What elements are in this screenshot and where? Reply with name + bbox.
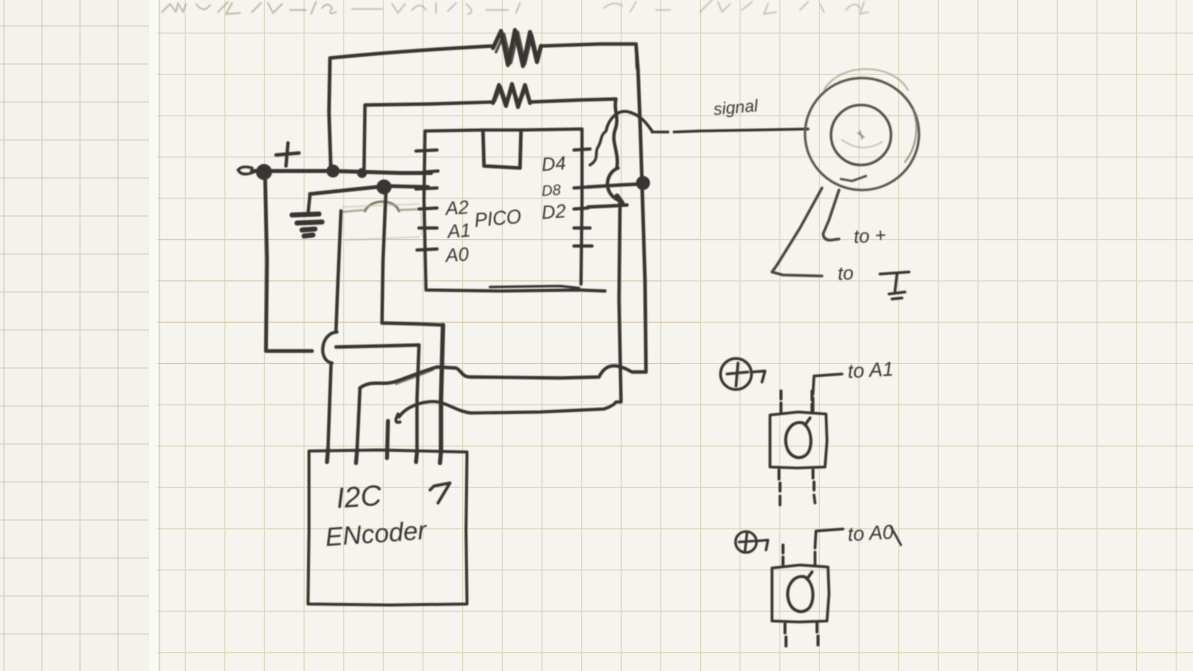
wire vB horizontal bbox=[382, 323, 443, 325]
wire from plus node 1 bbox=[752, 371, 765, 382]
pico pin A2 bbox=[419, 208, 437, 209]
wire R1 corner overshoot bbox=[636, 44, 637, 68]
wire vB drop bbox=[441, 325, 443, 451]
pico pin right1 bbox=[574, 149, 590, 150]
pot module P1 box bbox=[770, 412, 827, 468]
wire vA hop arc bbox=[323, 332, 337, 363]
svg-text:to: to bbox=[837, 263, 854, 285]
wire D8 to junction bbox=[588, 184, 641, 187]
svg-text:to A0: to A0 bbox=[847, 522, 894, 546]
wire pin into encoder p2 bbox=[356, 451, 357, 463]
faint handwriting top-mid bbox=[352, 3, 520, 14]
svg-text:D8: D8 bbox=[541, 182, 562, 200]
speaker double-draw arc bbox=[905, 110, 916, 162]
faint speaker inner shade bbox=[842, 140, 882, 148]
svg-text:D4: D4 bbox=[541, 153, 567, 176]
svg-text:to +: to + bbox=[853, 225, 886, 248]
wire R2 right leg bbox=[530, 99, 617, 167]
pico pin A1 bbox=[419, 226, 437, 229]
svg-text:A1: A1 bbox=[446, 220, 472, 243]
wire pot1 pin left dashes bbox=[780, 391, 783, 412]
wire D8 net vertical bbox=[642, 183, 646, 371]
wire from plus node 2 bbox=[757, 540, 768, 550]
pot P1 zero glyph bbox=[786, 418, 811, 458]
wire pin into encoder p5 bbox=[440, 451, 441, 463]
I2C encoder box bbox=[308, 450, 467, 605]
wire pin into encoder p4 bbox=[416, 452, 417, 462]
pico pin right5 bbox=[574, 244, 592, 247]
svg-text:A2: A2 bbox=[444, 197, 470, 220]
resistor R1 bbox=[493, 30, 541, 66]
speaker center mark bbox=[858, 131, 864, 139]
wire signal line bbox=[652, 129, 808, 132]
wire pot1 pin right bbox=[811, 391, 814, 412]
node junction dot B bbox=[329, 167, 338, 176]
ground symbol bbox=[292, 214, 322, 236]
pico pin D4 bbox=[574, 187, 588, 188]
faint speaker sketch arc bbox=[824, 69, 908, 90]
wire pin into encoder p1 bbox=[327, 449, 328, 462]
plus-circle node 2 bbox=[736, 532, 757, 553]
wire signal arch bbox=[606, 111, 652, 131]
faint handwriting top-right bbox=[604, 0, 868, 14]
wire H2 wavy bbox=[360, 366, 646, 388]
pot module P2 box bbox=[772, 565, 829, 622]
wire rail to A2 bbox=[310, 186, 428, 194]
speaker outer circle bbox=[805, 78, 919, 190]
wire to A1 bbox=[813, 374, 842, 412]
node junction dot D bbox=[379, 182, 390, 193]
svg-text:to A1: to A1 bbox=[847, 359, 894, 383]
wire H2 doubled bbox=[396, 370, 433, 384]
wire H3 curl end bbox=[396, 414, 400, 422]
pico pin A3 bbox=[416, 150, 437, 151]
svg-text:I2C: I2C bbox=[335, 480, 383, 515]
wire vA lower bbox=[328, 365, 331, 449]
svg-text:A0: A0 bbox=[444, 244, 470, 267]
wire R2 left leg bbox=[364, 102, 493, 172]
pico pin left2 bbox=[416, 188, 437, 189]
wire pot1 bottom stubs bbox=[779, 470, 814, 491]
node junction dot E bbox=[638, 178, 648, 188]
wire pot2 pin left dashes bbox=[782, 545, 785, 565]
plus-circle node 1 bbox=[720, 358, 751, 389]
svg-text:PICO: PICO bbox=[474, 206, 523, 232]
pico chip bottom doubled bbox=[490, 286, 579, 288]
pico pin D8 bbox=[574, 208, 588, 209]
svg-text:signal: signal bbox=[713, 96, 760, 119]
wire vB vertical bbox=[382, 191, 386, 323]
wire pot2 bottom stubs bbox=[785, 623, 818, 646]
wire hop arrow blob bbox=[617, 196, 622, 203]
faint erased box bbox=[343, 204, 422, 240]
wire + power rail bbox=[252, 171, 431, 173]
label A0 strike bbox=[891, 527, 901, 545]
+ symbol bbox=[276, 143, 299, 166]
wire to A0 bbox=[815, 529, 843, 565]
encoder pin arrow symbol bbox=[430, 483, 450, 503]
svg-text:D2: D2 bbox=[541, 201, 567, 224]
node junction dot C bbox=[359, 170, 366, 177]
resistor R1 doubled bbox=[496, 32, 538, 64]
wire + rail left drop bbox=[265, 172, 312, 351]
pot P2 zero glyph bbox=[788, 572, 813, 612]
wire R1 left leg bbox=[329, 46, 493, 174]
wire ground stub bbox=[308, 195, 310, 214]
wire horizontal to encoder corner bbox=[336, 345, 419, 452]
wire D2 net vertical bbox=[619, 203, 621, 401]
wire H3 wavy bbox=[399, 402, 621, 417]
speaker inner circle bbox=[831, 105, 891, 165]
wire + rail hook end bbox=[238, 167, 254, 174]
wire H3 drop to encoder bbox=[387, 421, 388, 458]
ground symbol 2 bbox=[880, 272, 909, 299]
wire S-curve from pin bbox=[590, 132, 605, 165]
wire H2 drop to encoder bbox=[357, 388, 360, 451]
speaker wire leg 2 bbox=[823, 190, 839, 240]
wire D2 to hop bbox=[588, 205, 627, 207]
node junction dot A bbox=[258, 166, 270, 178]
pico chip U1 outline bbox=[424, 129, 605, 291]
wire vA upper bbox=[336, 211, 341, 330]
wire hop from R2 to D2 net bbox=[607, 168, 621, 203]
resistor R2 doubled bbox=[495, 86, 526, 105]
resistor R2 bbox=[493, 84, 530, 107]
wire pot1 lower dashes bbox=[780, 495, 815, 505]
pico pin D2 bbox=[574, 226, 590, 229]
faint handwriting top-left bbox=[162, 2, 336, 14]
faint dome over vB (erased wire hop) bbox=[365, 202, 399, 211]
pico pin A0 bbox=[417, 249, 437, 250]
faint erased wire A2 bbox=[341, 209, 424, 212]
speaker bottom tick bbox=[841, 176, 866, 181]
speaker wire leg 1 bbox=[772, 188, 822, 276]
pico chip notch bbox=[483, 131, 521, 168]
wire R1 right leg bbox=[541, 44, 642, 182]
pico pin vplus bbox=[424, 171, 438, 172]
